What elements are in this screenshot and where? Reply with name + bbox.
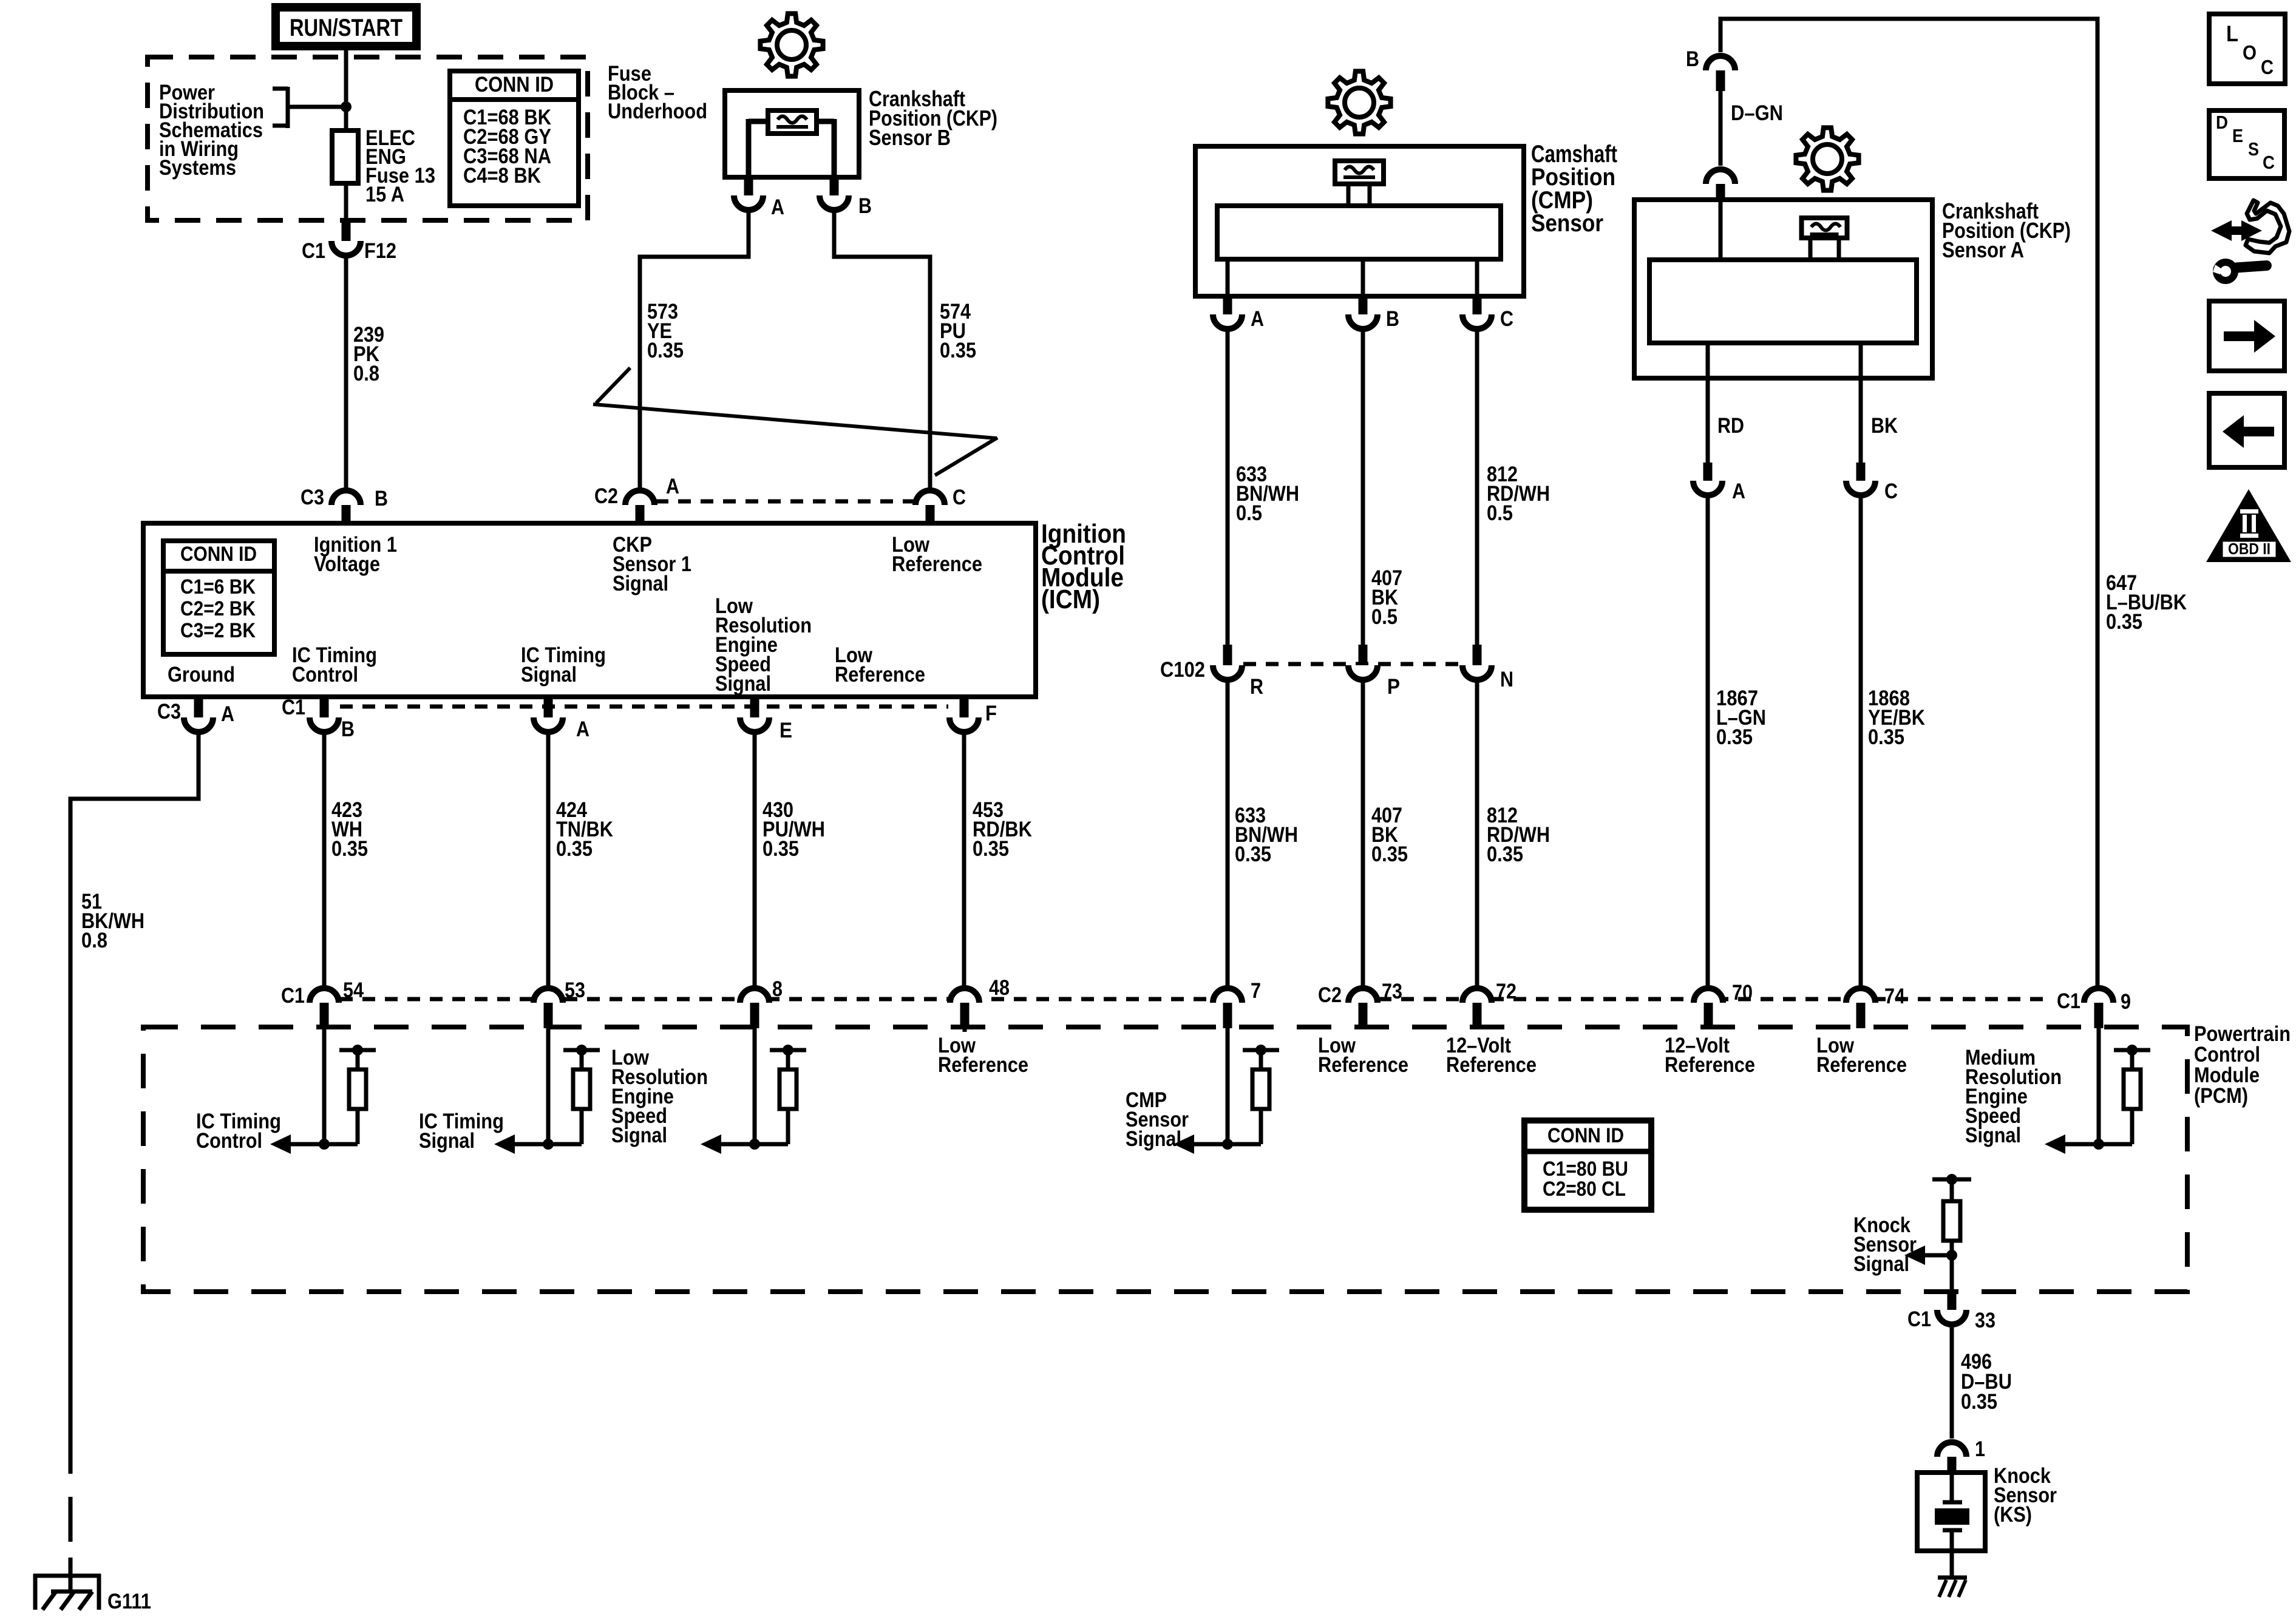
connector A (ICM)	[534, 697, 589, 741]
gear icon (CMP sensor)	[1328, 71, 1390, 134]
svg-text:C: C	[1500, 307, 1513, 331]
svg-text:Reference: Reference	[1446, 1053, 1537, 1077]
svg-text:70: 70	[1732, 981, 1753, 1005]
svg-text:A: A	[1732, 480, 1745, 503]
connector B (CKP A harness)	[1686, 47, 1735, 91]
wire: RUN/START to fuse F13	[344, 46, 348, 131]
svg-text:Reference: Reference	[1665, 1053, 1755, 1077]
label: Medium Resolution Engine Speed Signal (PCM)	[1965, 1046, 2062, 1147]
svg-text:33: 33	[1975, 1309, 1995, 1332]
svg-text:Reference: Reference	[1318, 1053, 1408, 1077]
svg-text:Signal: Signal	[613, 572, 668, 595]
connector C (CKP A)	[1846, 463, 1898, 503]
svg-text:C: C	[953, 486, 966, 509]
svg-text:Reference: Reference	[938, 1053, 1028, 1077]
svg-text:(ICM): (ICM)	[1041, 585, 1100, 614]
icon: OBD II triangle	[2206, 489, 2291, 562]
power feed RUN/START box	[276, 7, 416, 46]
connector C1 pin 33 (PCM)	[1907, 1292, 1995, 1332]
svg-text:0.35: 0.35	[1487, 842, 1523, 866]
svg-text:C1: C1	[1907, 1307, 1931, 1331]
svg-text:C102: C102	[1160, 658, 1205, 682]
svg-text:Underhood: Underhood	[608, 100, 707, 123]
label: Low Reference (ICM top)	[892, 533, 982, 576]
label: ELEC ENG Fuse 13 15 A	[365, 126, 435, 206]
wire 430 PU/WH 0.35	[755, 732, 825, 991]
wire 407 BK 0.5	[1363, 329, 1402, 645]
icon: LOC box	[2209, 14, 2285, 84]
wire 1867 L-GN 0.35	[1708, 495, 1766, 991]
svg-text:(KS): (KS)	[1994, 1503, 2032, 1527]
label: CMP Sensor Signal (PCM)	[1126, 1088, 1189, 1151]
conn id table (PCM)	[1524, 1120, 1651, 1210]
PCM internal: IC timing control input	[270, 1028, 376, 1154]
svg-text:A: A	[771, 195, 784, 219]
label: 12-Volt Reference (pin 70)	[1665, 1034, 1755, 1077]
svg-text:0.35: 0.35	[1371, 842, 1408, 866]
svg-text:C3=2 BK: C3=2 BK	[180, 619, 256, 642]
connector B (CKP B pigtail)	[820, 177, 872, 218]
wire 647 L-BU/BK 0.35 label	[2106, 571, 2187, 634]
wire 423 WH 0.35	[324, 732, 368, 991]
svg-text:C1=6 BK: C1=6 BK	[180, 575, 256, 598]
svg-text:7: 7	[1251, 979, 1261, 1003]
svg-text:0.8: 0.8	[353, 362, 379, 385]
connector pin 7 (PCM)	[1213, 979, 1261, 1028]
connector C1 pin 9 (PCM)	[2057, 988, 2131, 1028]
wire 453 RD/BK 0.35	[964, 732, 1032, 991]
svg-text:Sensor B: Sensor B	[869, 125, 951, 150]
label: G111	[107, 1590, 151, 1613]
connector C3 B (ICM ignition feed)	[301, 486, 388, 523]
connector B (CMP pigtail)	[1348, 296, 1399, 331]
svg-text:48: 48	[989, 976, 1010, 1000]
svg-text:74: 74	[1884, 985, 1905, 1008]
PCM internal: low res engine speed input	[701, 1028, 806, 1154]
connector C (ICM)	[915, 486, 966, 523]
connector A (CKP B pigtail)	[734, 177, 784, 219]
connector (CKP A pigtail B)	[1706, 169, 1735, 200]
ignition control module (ICM) box	[143, 523, 1036, 697]
svg-text:0.35: 0.35	[763, 837, 799, 861]
dashed link B to F	[340, 705, 948, 709]
label: Low Reference (ICM bottom)	[835, 643, 925, 686]
svg-text:0.35: 0.35	[2106, 610, 2142, 634]
svg-text:Systems: Systems	[159, 156, 236, 180]
svg-text:0.8: 0.8	[81, 929, 107, 952]
svg-text:E: E	[779, 719, 792, 742]
svg-text:Sensor: Sensor	[1531, 210, 1603, 237]
twisted pair marker	[593, 368, 997, 475]
svg-text:CONN ID: CONN ID	[180, 543, 257, 566]
svg-text:B: B	[1386, 307, 1399, 331]
svg-text:Reference: Reference	[835, 663, 925, 686]
label: Low Resolution Engine Speed Signal (PCM)	[611, 1046, 708, 1147]
svg-text:A: A	[666, 475, 679, 498]
wire 812 RD/WH 0.35	[1477, 680, 1550, 991]
wire RD (CKP A)	[1708, 378, 1744, 463]
svg-text:C3: C3	[301, 486, 324, 509]
svg-text:B: B	[1686, 47, 1699, 71]
note: Power Distribution Schematics in Wiring Systems	[159, 81, 264, 180]
svg-text:B: B	[341, 717, 355, 741]
label: IC Timing Control (ICM)	[292, 643, 377, 686]
wire 239 PK 0.8	[346, 256, 384, 490]
conn id table (fuse block)	[450, 71, 579, 206]
svg-text:0.35: 0.35	[331, 837, 368, 861]
dashed link C102 R-P-N	[1243, 662, 1461, 666]
gear icon (CKP sensor B)	[760, 13, 823, 76]
icon: wrench with arrows	[2211, 200, 2289, 280]
svg-text:N: N	[1500, 668, 1513, 691]
svg-text:S: S	[2248, 138, 2259, 160]
connector A (CMP pigtail)	[1213, 296, 1264, 331]
svg-text:B: B	[375, 487, 388, 510]
svg-text:CONN ID: CONN ID	[475, 73, 554, 97]
wire 633 BN/WH 0.5	[1228, 329, 1299, 645]
svg-text:1: 1	[1975, 1437, 1985, 1461]
svg-text:(PCM): (PCM)	[2194, 1084, 2248, 1108]
dashed link pins 54-7	[340, 997, 1212, 1002]
svg-text:C2=2 BK: C2=2 BK	[180, 597, 256, 620]
PCM internal: pin 48 stub	[963, 1028, 967, 1032]
svg-text:0.35: 0.35	[1235, 842, 1271, 866]
PCM internal: medium res engine speed input	[2045, 1028, 2150, 1154]
svg-text:BK: BK	[1871, 414, 1898, 438]
wire 51 BK/WH 0.8 (ground)	[70, 732, 199, 1576]
label: 12-Volt Reference (pin 72)	[1446, 1034, 1537, 1077]
connector C1 F12	[302, 220, 396, 263]
connector pin 8 (PCM)	[740, 977, 783, 1028]
svg-text:0.5: 0.5	[1487, 501, 1513, 525]
camshaft position (CMP) sensor box	[1195, 146, 1524, 296]
connector pin 53 (PCM)	[534, 978, 585, 1028]
svg-text:C1: C1	[281, 984, 305, 1008]
label: Low Reference (pin 48)	[938, 1034, 1028, 1077]
svg-text:C2: C2	[594, 484, 618, 508]
svg-text:P: P	[1387, 675, 1400, 699]
label: Ignition Control Module (ICM)	[1041, 519, 1126, 614]
svg-text:0.35: 0.35	[556, 837, 593, 861]
connector pin 72 (PCM)	[1462, 980, 1517, 1028]
label: Low Reference (pin 73)	[1318, 1034, 1408, 1077]
svg-text:Signal: Signal	[1853, 1252, 1909, 1276]
conn id table (ICM)	[163, 541, 274, 654]
svg-text:Ground: Ground	[168, 663, 235, 686]
svg-text:0.35: 0.35	[1868, 725, 1904, 749]
wire: CKP A feed (top run to 647)	[1720, 19, 2097, 988]
svg-text:OBD II: OBD II	[2228, 540, 2271, 558]
connector C2 pin 73 (PCM)	[1318, 980, 1402, 1028]
svg-text:72: 72	[1496, 980, 1517, 1003]
svg-text:Signal: Signal	[715, 672, 771, 696]
svg-text:15 A: 15 A	[365, 183, 404, 206]
svg-text:A: A	[576, 717, 589, 741]
wire 424 TN/BK 0.35	[548, 732, 613, 991]
svg-text:R: R	[1250, 675, 1263, 699]
svg-text:Signal: Signal	[419, 1129, 475, 1153]
svg-text:0.35: 0.35	[1716, 725, 1753, 749]
crankshaft position (CKP) sensor B box	[725, 90, 859, 177]
svg-text:Signal: Signal	[611, 1124, 667, 1147]
svg-text:A: A	[221, 702, 234, 726]
svg-text:0.35: 0.35	[940, 339, 976, 362]
svg-text:Control: Control	[196, 1129, 262, 1153]
label: Fuse Block - Underhood	[608, 62, 707, 123]
label: IC Timing Signal (PCM)	[419, 1110, 504, 1153]
wire 1868 YE/BK 0.35	[1861, 495, 1925, 991]
PCM internal: CMP sensor signal input	[1173, 1028, 1279, 1154]
connector C102 N	[1462, 645, 1513, 691]
wire 573 YE 0.35	[640, 210, 749, 490]
connector C1 pin 54 (PCM)	[281, 978, 364, 1028]
dashed link A to C	[656, 500, 914, 504]
wire 574 PU 0.35	[834, 210, 976, 490]
svg-text:Reference: Reference	[1816, 1053, 1907, 1077]
connector C2 A (ICM)	[594, 475, 679, 523]
label: IC Timing Signal (ICM)	[521, 643, 606, 686]
wire BK (CKP A)	[1861, 378, 1898, 463]
svg-text:F12: F12	[364, 239, 396, 263]
label: Powertrain Control Module (PCM)	[2194, 1022, 2291, 1108]
label: Knock Sensor Signal (PCM)	[1853, 1213, 1917, 1276]
connector F (ICM)	[949, 697, 997, 732]
svg-text:D: D	[2216, 112, 2228, 133]
svg-text:CONN ID: CONN ID	[1547, 1124, 1624, 1147]
PCM internal: IC timing signal input	[494, 1028, 600, 1154]
label: Camshaft Position (CMP) Sensor	[1531, 141, 1617, 237]
svg-text:0.35: 0.35	[973, 837, 1009, 861]
svg-text:O: O	[2243, 41, 2257, 64]
icon: left arrow box	[2209, 393, 2284, 467]
svg-text:0.35: 0.35	[1961, 1390, 1997, 1414]
gear icon (CKP sensor A)	[1796, 127, 1858, 190]
label: Ignition 1 Voltage	[314, 533, 397, 576]
label: IC Timing Control (PCM)	[196, 1110, 281, 1153]
connector E (ICM)	[740, 697, 792, 742]
fuse F13 (ELEC ENG 15A)	[332, 131, 358, 183]
connector A (CKP A)	[1693, 463, 1745, 503]
label: Low Resolution Engine Speed Signal (ICM)	[715, 594, 812, 696]
fuse block - underhood (dashed box)	[148, 57, 588, 220]
svg-text:0.35: 0.35	[647, 339, 684, 362]
connector C (CMP pigtail)	[1462, 296, 1513, 331]
svg-text:Reference: Reference	[892, 552, 982, 576]
svg-text:Signal: Signal	[1965, 1124, 2021, 1147]
svg-text:L: L	[2226, 21, 2238, 46]
connector C102 P	[1348, 645, 1400, 699]
svg-text:C3: C3	[157, 700, 181, 724]
svg-text:C2: C2	[1318, 983, 1342, 1007]
svg-text:G111: G111	[107, 1590, 151, 1613]
wire 633 BN/WH 0.35	[1228, 680, 1298, 991]
svg-text:C2=80 CL: C2=80 CL	[1543, 1178, 1626, 1201]
connector pin 48 (PCM)	[950, 976, 1010, 1028]
svg-text:0.5: 0.5	[1371, 605, 1398, 629]
svg-text:C1: C1	[2057, 989, 2080, 1013]
svg-text:RUN/START: RUN/START	[290, 15, 402, 41]
wire 812 RD/WH 0.5	[1477, 329, 1550, 645]
svg-text:Sensor A: Sensor A	[1942, 237, 2024, 262]
wire 407 BK 0.35	[1363, 680, 1408, 991]
svg-text:0.5: 0.5	[1236, 501, 1262, 525]
svg-text:C: C	[2263, 152, 2275, 173]
svg-text:B: B	[858, 194, 872, 218]
connector C3 A (ICM ground)	[157, 697, 234, 732]
powertrain control module (PCM) dashed box	[143, 1027, 2187, 1292]
svg-text:C4=8 BK: C4=8 BK	[463, 164, 541, 188]
connector C102 R	[1160, 645, 1263, 699]
connector pin 70 (PCM)	[1694, 981, 1753, 1028]
svg-text:54: 54	[343, 978, 364, 1002]
crankshaft position (CKP) sensor A box	[1634, 200, 1932, 378]
svg-text:9: 9	[2121, 990, 2131, 1014]
svg-text:E: E	[2232, 125, 2243, 146]
label: Crankshaft Position (CKP) Sensor A	[1942, 198, 2071, 262]
wire D-GN	[1720, 91, 1783, 166]
icon: DESC box	[2209, 110, 2284, 178]
svg-text:C: C	[2261, 56, 2274, 78]
bracket wire (note to bus)	[273, 87, 346, 128]
chassis ground (knock sensor)	[1938, 1578, 1967, 1597]
svg-text:53: 53	[565, 978, 585, 1002]
PCM internal: knock sensor circuit	[1904, 1174, 1971, 1292]
label: CKP Sensor 1 Signal	[613, 533, 691, 595]
icon: right arrow box	[2209, 301, 2284, 371]
svg-text:8: 8	[772, 977, 783, 1001]
label: Knock Sensor (KS)	[1994, 1464, 2057, 1527]
svg-text:Voltage: Voltage	[314, 552, 380, 576]
dashed link pins 73-9	[1379, 997, 2052, 1002]
connector pin 1 (knock sensor)	[1937, 1437, 1985, 1473]
svg-text:A: A	[1251, 307, 1264, 331]
svg-text:RD: RD	[1717, 414, 1744, 438]
svg-text:Signal: Signal	[1126, 1127, 1181, 1151]
connector C1 B (ICM)	[282, 696, 355, 741]
wire: fuse to C1 F12	[344, 183, 348, 220]
svg-text:F: F	[985, 702, 997, 725]
label: Low Reference (pin 74)	[1816, 1034, 1907, 1077]
knock sensor (KS) box	[1917, 1473, 1985, 1576]
svg-text:C: C	[1884, 480, 1898, 503]
svg-text:Signal: Signal	[521, 663, 577, 686]
svg-text:Control: Control	[292, 663, 358, 686]
junction: fuse feed	[341, 101, 352, 112]
svg-text:D–GN: D–GN	[1731, 101, 1783, 125]
svg-text:73: 73	[1382, 980, 1402, 1003]
wire 496 D-BU 0.35	[1952, 1324, 2012, 1439]
ground G111 symbol	[33, 1574, 101, 1610]
connector pin 74 (PCM)	[1846, 985, 1905, 1028]
label: Ground (ICM)	[168, 663, 235, 686]
svg-text:C1: C1	[282, 696, 305, 719]
label: Crankshaft Position (CKP) Sensor B	[869, 86, 997, 150]
svg-text:C1: C1	[302, 239, 325, 263]
